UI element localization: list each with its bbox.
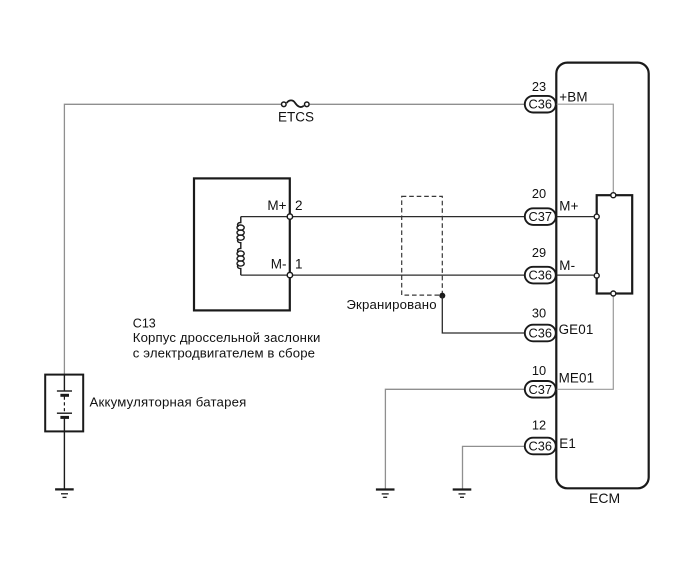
svg-text:C36: C36 [529,326,552,341]
svg-text:23: 23 [532,79,546,94]
svg-text:C37: C37 [529,209,552,224]
ECM driver block [597,195,633,293]
ground (ME01) [376,490,395,498]
ECM internal wire M+ to driver block [556,216,594,218]
svg-text:Корпус дроссельной заслонки: Корпус дроссельной заслонки [133,330,321,345]
label M- pin 1 [271,256,303,271]
svg-text:GE01: GE01 [559,322,594,337]
shield box (dashed) [402,196,443,295]
fuse ETCS [278,100,314,124]
svg-text:M-: M- [559,258,575,273]
wire M+ net to ECM [290,216,525,218]
label M+ pin 2 [267,198,302,213]
svg-text:ME01: ME01 [559,370,595,385]
svg-text:20: 20 [532,186,546,201]
ground (battery) [55,489,74,497]
connector C36 pin 29 (M-) [525,245,575,283]
wire E1 to ground [463,446,525,489]
svg-text:1: 1 [295,256,303,271]
ECM body [556,63,648,489]
svg-text:M-: M- [271,256,287,271]
wire coil top to node 2 [241,216,290,218]
connector C36 pin 30 (GE01) [525,306,594,342]
connector C36 pin 12 (E1) [525,417,576,454]
svg-text:M+: M+ [559,199,578,214]
battery: Аккумуляторная батарея [45,375,246,432]
wire coil bottom to node 1 [241,274,290,276]
svg-text:ECM: ECM [589,490,620,506]
svg-text:12: 12 [532,417,546,432]
ECM internal wire +BM to driver block [556,104,614,192]
node M+ pin 2 [287,214,292,219]
svg-text:с электродвигателем в сборе: с электродвигателем в сборе [133,345,315,360]
driver block node bottom [611,291,616,296]
svg-text:30: 30 [532,306,546,321]
connector C37 pin 10 (ME01) [525,363,594,398]
motor winding (coil) [237,217,244,276]
svg-text:C36: C36 [529,439,552,454]
svg-text:C36: C36 [529,97,552,112]
ECM internal wire driver block to ME01 [556,297,614,390]
svg-text:M+: M+ [267,198,286,213]
wire M- net to ECM [290,274,525,276]
svg-text:Аккумуляторная батарея: Аккумуляторная батарея [90,395,247,410]
wire fuse to ECM +BM pin [310,103,525,105]
C13 throttle body box [194,178,290,310]
svg-text:2: 2 [295,198,303,213]
svg-text:29: 29 [532,245,546,260]
svg-text:C13: C13 [133,317,156,331]
C13 label [133,317,321,361]
driver block node M+ [594,214,599,219]
svg-text:E1: E1 [559,436,576,451]
connector C36 pin 23 (+BM) [525,79,588,112]
wire ME01 to ground [385,389,525,489]
ECM internal wire M- to driver block [556,274,594,276]
svg-text:C36: C36 [529,268,552,283]
connector C37 pin 20 (M+) [525,186,579,225]
driver block node M- [594,273,599,278]
svg-text:C37: C37 [529,382,552,397]
svg-text:ETCS: ETCS [278,109,314,124]
svg-text:Экранировано: Экранировано [346,297,436,312]
shield junction dot [439,293,445,299]
wire battery positive net: battery top up and right to fuse [64,104,281,374]
wire battery negative to ground [63,431,65,489]
svg-text:+BM: +BM [559,89,587,104]
driver block node top [611,193,616,198]
wire shield drain to GE01 [442,296,525,333]
ground (E1) [453,490,472,498]
svg-text:10: 10 [532,363,546,378]
node M- pin 1 [287,272,292,277]
